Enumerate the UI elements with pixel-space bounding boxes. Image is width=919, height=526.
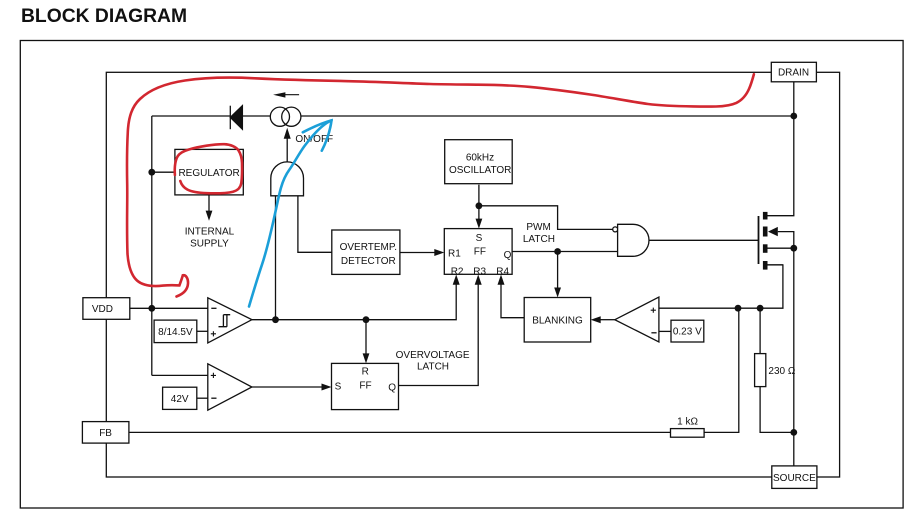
- reference 42V box: [163, 387, 197, 409]
- chip boundary rectangle: [106, 72, 839, 477]
- arrow comparator2 to S of overvoltage latch: [322, 384, 332, 391]
- AND gate ON/OFF: [271, 162, 304, 196]
- svg-text:PWM: PWM: [526, 222, 550, 233]
- wire current sense line: [659, 265, 783, 308]
- NAND gate: [613, 224, 649, 256]
- svg-text:BLANKING: BLANKING: [532, 316, 583, 327]
- wire overvoltage R drop: [365, 320, 367, 355]
- wire 8/14.5V to comparator1: [197, 330, 208, 332]
- wire mosfet source to sense line: [768, 264, 783, 266]
- resistor 1 kohm: [671, 416, 705, 437]
- comparator U1 (schmitt 8/14.5V): [208, 298, 252, 343]
- regulator box: [175, 149, 243, 195]
- wire Q output to nand: [512, 251, 618, 253]
- blue freehand arrow shaft: [249, 120, 332, 306]
- pin DRAIN: [771, 62, 816, 82]
- arrow into R3: [475, 275, 482, 285]
- OVERVOLTAGE LATCH label: [396, 350, 470, 373]
- svg-text:FF: FF: [474, 246, 486, 257]
- wire FB feedback line: [129, 308, 739, 432]
- wire gate right input to overtemp: [298, 196, 332, 253]
- wire gate left input: [275, 196, 277, 320]
- internal supply label: [185, 226, 235, 249]
- svg-text:0.23 V: 0.23 V: [673, 327, 702, 338]
- pin VDD: [83, 298, 130, 320]
- svg-text:1 kΩ: 1 kΩ: [677, 416, 698, 427]
- wire top supply rail: [152, 115, 794, 117]
- blanking box: [524, 298, 591, 343]
- svg-text:DRAIN: DRAIN: [778, 68, 809, 79]
- comparator U2 (42V): [208, 364, 252, 410]
- pin SOURCE: [772, 466, 817, 489]
- svg-text:Q: Q: [388, 383, 396, 394]
- wire blanking to R4: [501, 284, 524, 318]
- wire 42V to comparator2: [197, 397, 208, 399]
- wire pwm latch to nand bubble: [479, 206, 613, 230]
- wire to regulator: [152, 171, 175, 173]
- svg-text:8/14.5V: 8/14.5V: [158, 327, 193, 338]
- current source (two circles): [270, 107, 301, 126]
- PWM LATCH label: [523, 222, 555, 245]
- arrow left above current source: [273, 92, 299, 97]
- svg-text:R4: R4: [496, 266, 509, 277]
- arrow into R of overvoltage latch: [363, 353, 370, 363]
- arrow into blanking top: [554, 288, 561, 298]
- resistor 230 ohm: [755, 354, 796, 387]
- wire nand output to gate: [649, 239, 759, 241]
- svg-text:R1: R1: [448, 248, 461, 259]
- overtemp detector box: [332, 230, 400, 274]
- main flip-flop box: [444, 229, 512, 278]
- wire oscillator down: [478, 185, 480, 220]
- oscillator box: [445, 140, 513, 184]
- red freehand loop around regulator: [175, 144, 242, 193]
- svg-text:INTERNAL: INTERNAL: [185, 226, 235, 237]
- arrow oscillator to S: [476, 219, 483, 229]
- wire mosfet source sense: [768, 248, 794, 466]
- svg-text:SOURCE: SOURCE: [773, 473, 816, 484]
- comparator U3 (0.23V, points left): [615, 297, 659, 342]
- wire 230 ohm branch: [760, 308, 794, 432]
- svg-text:OVERTEMP.: OVERTEMP.: [340, 242, 397, 253]
- wire mosfet body: [778, 232, 794, 249]
- wire VDD to comparator1: [130, 307, 208, 309]
- pin FB: [82, 422, 128, 444]
- wire overvoltage Q to R3: [399, 284, 479, 386]
- wire to comparator2 plus: [152, 374, 208, 376]
- blue freehand arrow head: [303, 120, 332, 150]
- wire Q branch down to blanking: [557, 252, 559, 289]
- wire drain vertical: [768, 82, 794, 216]
- svg-text:R2: R2: [451, 266, 464, 277]
- wire comparator1 output: [252, 284, 456, 320]
- arrow overtemp to R1: [434, 249, 444, 256]
- diode D1: [230, 106, 242, 130]
- svg-text:OVERVOLTAGE: OVERVOLTAGE: [396, 350, 470, 361]
- svg-text:Q: Q: [504, 250, 512, 261]
- svg-text:LATCH: LATCH: [523, 234, 555, 245]
- overvoltage latch flip-flop: [332, 363, 399, 409]
- svg-text:S: S: [335, 381, 342, 392]
- svg-text:SUPPLY: SUPPLY: [190, 238, 229, 249]
- svg-text:S: S: [476, 233, 483, 244]
- title BLOCK DIAGRAM: [21, 6, 187, 28]
- svg-text:FF: FF: [359, 380, 371, 391]
- wire comparator3 to blanking: [600, 319, 615, 321]
- svg-text:230 Ω: 230 Ω: [768, 366, 795, 377]
- reference 8/14.5V box: [154, 320, 197, 343]
- arrow into current source: [286, 139, 288, 162]
- red freehand annotation main stroke: [127, 74, 754, 296]
- svg-text:R: R: [362, 367, 369, 378]
- svg-text:LATCH: LATCH: [417, 362, 449, 373]
- wire comparator2 output: [252, 386, 323, 388]
- svg-text:FB: FB: [99, 428, 112, 439]
- arrow into R2: [453, 275, 460, 285]
- svg-text:VDD: VDD: [92, 304, 113, 315]
- arrow comparator3 into blanking: [591, 316, 601, 323]
- svg-text:R3: R3: [473, 266, 486, 277]
- wire VDD vertical branch: [151, 116, 153, 375]
- svg-text:60kHz: 60kHz: [466, 153, 494, 164]
- svg-text:REGULATOR: REGULATOR: [178, 168, 239, 179]
- svg-text:DETECTOR: DETECTOR: [341, 256, 396, 267]
- wire overtemp to R1: [400, 252, 435, 254]
- svg-text:OSCILLATOR: OSCILLATOR: [449, 165, 511, 176]
- svg-text:42V: 42V: [171, 394, 189, 405]
- arrow regulator to internal supply: [208, 195, 210, 211]
- wire comparator3 minus to 0.23V: [659, 330, 671, 332]
- MOSFET Q1: [759, 212, 778, 270]
- arrow into R4: [498, 275, 505, 285]
- reference 0.23V box: [671, 320, 704, 342]
